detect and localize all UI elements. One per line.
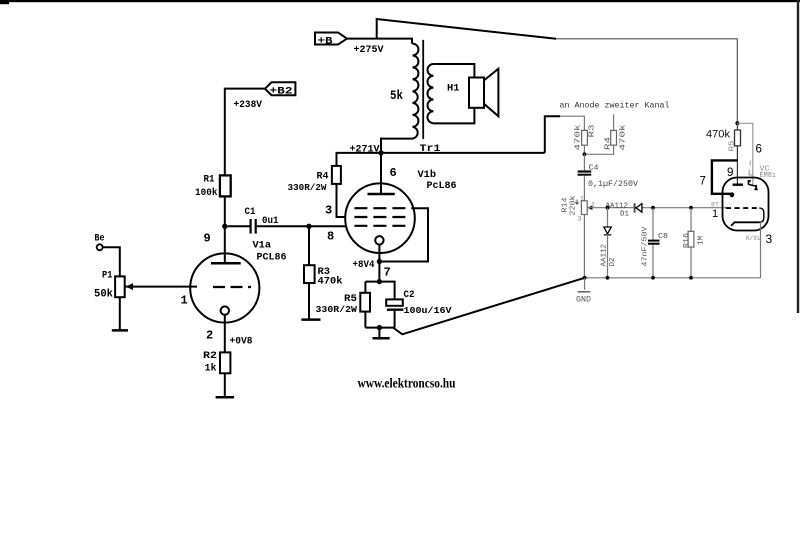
wire R2 bottom: [224, 373, 226, 396]
node junction C1/R3/grid: [306, 224, 311, 229]
eye cathode line: [731, 222, 759, 226]
resistor R4 470k (eye): [584, 114, 627, 154]
svg-text:PcL86: PcL86: [427, 181, 457, 192]
eye deflection electrode pin 6: [749, 181, 751, 185]
eye anode bar pin 9: [733, 183, 743, 185]
svg-text:PCL86: PCL86: [257, 253, 287, 264]
svg-text:www.elektroncso.hu: www.elektroncso.hu: [358, 376, 456, 391]
svg-text:0,1µF/250V: 0,1µF/250V: [588, 180, 638, 189]
border right: [797, 0, 799, 313]
svg-text:H1: H1: [447, 84, 460, 95]
svg-text:0u1: 0u1: [262, 216, 279, 227]
wire pin 7 bracket: [712, 160, 738, 193]
svg-text:50k: 50k: [94, 289, 113, 301]
svg-text:P1: P1: [102, 271, 113, 282]
wire +271V rail: [336, 152, 545, 154]
wire ground diagonal to eye GND: [393, 278, 585, 335]
svg-text:3: 3: [578, 216, 582, 223]
node cathode network top: [377, 279, 382, 284]
svg-text:R14: R14: [562, 197, 570, 213]
svg-text:V1a: V1a: [253, 241, 272, 252]
svg-text:470k: 470k: [575, 124, 583, 151]
svg-text:AA112: AA112: [601, 244, 609, 267]
svg-text:1: 1: [712, 208, 718, 220]
ground GND: [576, 278, 591, 305]
wire +B to transformer: [347, 39, 412, 44]
svg-text:+271V: +271V: [350, 145, 380, 156]
border top: [0, 0, 800, 2]
svg-text:+8V4: +8V4: [353, 260, 375, 271]
svg-text:470k: 470k: [706, 129, 730, 141]
svg-text:3: 3: [325, 204, 332, 218]
svg-text:7: 7: [700, 176, 706, 188]
svg-text:220k: 220k: [570, 195, 578, 216]
node C8 top: [651, 206, 655, 210]
wire node to V1b grid pin 8: [309, 225, 346, 227]
ground (P1): [112, 329, 128, 332]
pin 6 tick marks: [749, 161, 753, 176]
ground (R2): [216, 396, 235, 399]
resistor R3 470k: [304, 226, 343, 318]
diode D1 AA112: [606, 202, 642, 218]
svg-text:R16: R16: [683, 232, 691, 248]
node anode/transformer: [378, 150, 383, 155]
svg-text:C4: C4: [589, 165, 600, 173]
resistor R16 1M: [683, 208, 706, 278]
node bus C8: [651, 276, 655, 280]
wire V1a anode up to node / R1 bottom: [224, 195, 226, 263]
wire +B riser and slant to eye supply: [377, 19, 556, 39]
svg-text:100u/16V: 100u/16V: [404, 305, 452, 316]
svg-text:+B2: +B2: [270, 87, 293, 98]
svg-text:+275V: +275V: [354, 45, 384, 56]
svg-text:1k: 1k: [205, 363, 217, 375]
capacitor C2 100u/16V: [365, 282, 451, 328]
svg-text:R4: R4: [605, 136, 613, 150]
triode V1a PCL86: [181, 232, 287, 343]
svg-text:1: 1: [580, 196, 584, 203]
potentiometer P1 50k: [94, 271, 133, 301]
transformer secondary: [427, 64, 433, 123]
transformer core: [422, 40, 424, 139]
svg-text:2: 2: [206, 329, 213, 343]
svg-text:47nF/50V: 47nF/50V: [642, 226, 650, 267]
wire g3 tie to cathode: [379, 208, 428, 261]
wire R5 to pin 9 anode bar: [736, 146, 738, 184]
svg-text:Tr1: Tr1: [420, 144, 441, 155]
svg-text:an Anode zweiter Kanal: an Anode zweiter Kanal: [560, 101, 670, 111]
potentiometer R14 220k: [562, 195, 596, 278]
node bus left: [583, 276, 587, 280]
node R16 top: [689, 206, 693, 210]
svg-text:+B: +B: [318, 36, 333, 47]
svg-text:R4: R4: [317, 172, 329, 183]
eye grid corner to cathode: [759, 208, 764, 222]
svg-text:K/8ı: K/8ı: [746, 235, 761, 242]
wire wiper rail to eye grid pin 1: [587, 207, 726, 209]
node junction R1/C1/anode: [222, 224, 227, 229]
flag +B: [315, 33, 347, 48]
svg-text:6: 6: [390, 166, 397, 180]
svg-text:C2: C2: [404, 290, 415, 301]
capacitor C1 0u1: [228, 207, 310, 234]
svg-text:330R/2W: 330R/2W: [316, 304, 358, 315]
wire P1 wiper to V1a grid: [126, 286, 198, 288]
svg-text:C1: C1: [245, 207, 256, 218]
svg-text:R2: R2: [203, 351, 217, 362]
node R5 top (eye): [735, 121, 739, 125]
node +8V4: [377, 259, 382, 264]
wire V1b cathode down: [378, 245, 380, 282]
flag +B2: [265, 82, 295, 97]
resistor R3 470k (eye): [575, 124, 597, 155]
resistor R1 100k: [195, 175, 231, 200]
eye grid dashed line pin 1: [726, 207, 760, 209]
svg-text:EM8ı: EM8ı: [760, 172, 777, 180]
ground (R3): [301, 318, 320, 321]
svg-text:1M: 1M: [698, 236, 706, 245]
svg-text:330R/2W: 330R/2W: [288, 182, 327, 193]
svg-text:470k: 470k: [318, 276, 343, 288]
svg-text:5k: 5k: [390, 89, 403, 103]
pentode V1b PcL86: [325, 166, 457, 280]
wire P1 bottom: [119, 297, 121, 330]
capacitor C8 47nF/50V: [642, 208, 669, 278]
magic eye tube VC EM8 outline: [723, 178, 769, 231]
svg-text:3: 3: [766, 232, 773, 246]
wire thin supply line to eye: [556, 39, 737, 124]
wire R1 top to +B2: [225, 89, 265, 176]
node bus D2: [606, 276, 610, 280]
svg-text:9: 9: [204, 232, 211, 246]
svg-text:D1: D1: [620, 210, 629, 218]
svg-text:100k: 100k: [195, 187, 218, 199]
node D2 top: [606, 206, 610, 210]
ground (R5/C2): [373, 328, 390, 339]
transformer Tr1 primary 5k: [381, 44, 418, 153]
node bus R16: [689, 276, 693, 280]
svg-text:R5: R5: [729, 140, 737, 152]
wire pin 3 down: [760, 222, 762, 277]
svg-text:R3: R3: [589, 124, 597, 138]
capacitor C4 0,1uF/250V: [578, 154, 639, 201]
wire Be to P1: [103, 247, 120, 276]
svg-text:R1: R1: [204, 175, 215, 186]
wire pin 6 branch: [737, 123, 752, 185]
svg-text:9: 9: [727, 167, 733, 179]
resistor R4 330R/2W: [288, 153, 346, 217]
wire eye supply entry to R3: [560, 116, 584, 130]
resistor R5 470k (eye): [706, 123, 741, 151]
svg-text:7: 7: [384, 266, 391, 280]
resistor R2 1k: [203, 351, 230, 375]
svg-text:V1b: V1b: [418, 169, 437, 181]
eye grid dot electrode: [730, 192, 735, 197]
node cathode network bottom: [377, 325, 382, 330]
speaker H1: [433, 64, 498, 123]
svg-text:Be: Be: [95, 234, 105, 245]
svg-text:C8: C8: [658, 233, 668, 241]
wire V1b anode pin 6: [380, 138, 382, 194]
svg-text:1: 1: [181, 294, 188, 308]
input terminal Be: [95, 234, 105, 251]
diode D2 AA112: [601, 208, 618, 278]
svg-text:470k: 470k: [620, 124, 628, 151]
svg-text:8: 8: [327, 230, 334, 244]
svg-text:+0V8: +0V8: [230, 337, 253, 348]
svg-text:6: 6: [756, 144, 762, 156]
svg-text:D2: D2: [609, 258, 617, 267]
svg-text:+238V: +238V: [234, 100, 263, 111]
svg-text:AA112: AA112: [606, 202, 629, 210]
resistor R5 330R/2W: [316, 282, 371, 328]
node R3/R4/C4: [583, 152, 587, 156]
svg-text:GND: GND: [576, 296, 591, 305]
wire V1a cathode to R2: [224, 315, 226, 353]
wire ground bus: [585, 277, 761, 279]
wire feedback riser to eye section: [545, 116, 560, 153]
